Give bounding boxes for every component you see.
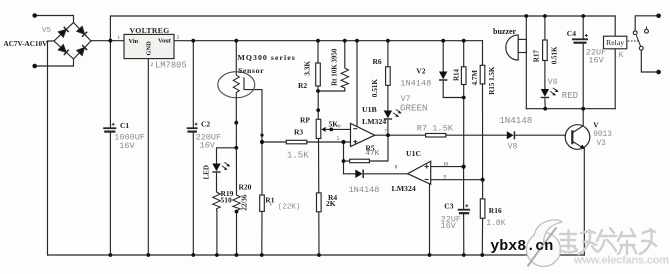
svg-text:LED: LED (203, 165, 211, 179)
svg-text:Vin: Vin (129, 38, 139, 45)
resistor R4 box (317, 193, 322, 212)
wire LED branch tee (217, 148, 237, 163)
potentiometer RP wiper arrow (321, 127, 325, 132)
svg-text:LM7805: LM7805 (155, 61, 187, 71)
svg-text:C4: C4 (567, 29, 576, 38)
op-amp U1B (351, 123, 375, 146)
svg-text:10: 10 (443, 162, 449, 167)
resistor R20 zigzag (233, 194, 240, 211)
wire bridge plus to VOLTREG Vin (91, 40, 124, 42)
svg-text:6: 6 (338, 124, 341, 129)
op-amp U1C minus sign (425, 179, 429, 181)
svg-text:Relay: Relay (606, 38, 624, 47)
diode V8 1N4148 (507, 131, 515, 139)
svg-text:1N4148: 1N4148 (499, 115, 532, 126)
transistor V3 emitter with arrow (573, 142, 585, 150)
wire C1 branch (109, 41, 111, 128)
wire feedback node down (343, 142, 345, 174)
op-amp U1B plus sign (353, 140, 357, 144)
resistor Rt zigzag (341, 66, 348, 89)
svg-text:R16: R16 (489, 206, 502, 215)
wire sensor bottom to R20 and ground (235, 98, 237, 194)
svg-text:R15 1.5K: R15 1.5K (488, 66, 496, 95)
svg-text:buzzer: buzzer (493, 27, 517, 36)
svg-text:R7 1.5K: R7 1.5K (417, 123, 454, 133)
svg-text:GND: GND (146, 41, 153, 56)
svg-text:3.3K: 3.3K (302, 61, 311, 76)
LED V6 red (541, 88, 559, 98)
svg-text:V5: V5 (42, 27, 52, 35)
relay armature lever (636, 35, 640, 46)
wire LED to R19 (216, 173, 218, 191)
node gnd R16 (480, 253, 484, 257)
node R3 input (260, 140, 264, 144)
op-amp U1C (408, 161, 431, 184)
svg-text:0.51K: 0.51K (371, 79, 379, 98)
node gnd C3 (462, 253, 466, 257)
node C4 rail (581, 14, 585, 18)
relay contact dashed link (628, 40, 639, 42)
wire R17 drop (544, 16, 546, 40)
node V2 top (441, 39, 445, 43)
svg-text:22/36: 22/36 (241, 194, 249, 210)
svg-text:* (22K): * (22K) (269, 204, 301, 212)
wire bridge minus to ground rail (48, 41, 55, 255)
node gnd U1C (428, 253, 432, 257)
wire R16 branch (482, 180, 484, 199)
resistor R7 box (426, 134, 446, 138)
relay contact NC circle (633, 31, 637, 35)
watermark elecfans glyphs (560, 228, 656, 254)
transistor V3 collector (573, 126, 583, 133)
svg-text:RP: RP (300, 115, 310, 124)
svg-text:Vout: Vout (158, 38, 172, 45)
diode bridge D3 bottom-left (58, 45, 68, 55)
svg-text:Sensor: Sensor (238, 66, 264, 75)
wire R4 to ground (318, 212, 320, 255)
wire R6 branch top (387, 41, 389, 67)
node wiper line (329, 127, 333, 131)
node LED tee (234, 146, 238, 150)
op-amp U1C plus sign (425, 165, 429, 169)
wire R1 branch (261, 142, 263, 195)
node R17 rail (543, 14, 547, 18)
wire U1C pin10 (431, 166, 464, 168)
node R5 left (342, 159, 346, 163)
wire VOLTREG GND to ground (147, 59, 149, 255)
svg-text:VOLTREG: VOLTREG (130, 26, 170, 35)
svg-text:C2: C2 (201, 120, 210, 129)
svg-text:R20: R20 (239, 183, 252, 192)
svg-text:R17: R17 (533, 50, 541, 63)
resistor R17 box (543, 40, 548, 61)
wire emitter to ground rail (583, 149, 585, 256)
wire relay coil drop (614, 16, 616, 36)
node gnd 7805 (146, 253, 150, 257)
wire diode V1 line to U1C output (344, 173, 356, 175)
svg-text:www.elecfans.com: www.elecfans.com (573, 255, 669, 267)
regulator U LM7805 box (124, 34, 174, 58)
relay contact NO stub (646, 26, 648, 29)
relay contact NO circle (645, 29, 649, 33)
wire top unregulated rail (110, 16, 615, 41)
wire node to RP top (317, 91, 319, 119)
wire U1C ground pin (429, 184, 431, 255)
svg-text:2K: 2K (326, 199, 336, 208)
svg-text:V8: V8 (508, 142, 518, 151)
node U1B plus (341, 140, 345, 144)
svg-text:5K: 5K (329, 119, 339, 128)
node gnd C2 (191, 253, 195, 257)
wire collector bus (526, 108, 615, 110)
sensor MQ300 ellipse (218, 72, 255, 98)
wire sensor top (235, 41, 237, 72)
node Vout C2 (191, 39, 195, 43)
node U1B output (386, 133, 390, 137)
LED V7 green (384, 109, 402, 119)
wire Rt bottom to node (318, 89, 345, 91)
node U1C pin10 (462, 165, 466, 169)
wire R2 bottom to node (317, 86, 319, 91)
wire 5V rail from Vout (174, 40, 483, 42)
wire R7 to diode V8 (446, 134, 507, 136)
wire relay common (641, 50, 658, 72)
svg-text:AC7V-AC10V: AC7V-AC10V (4, 40, 49, 48)
svg-text:R14: R14 (452, 68, 460, 81)
node U1B V+ (355, 39, 359, 43)
transistor V3 base bar (571, 130, 573, 144)
node gnd R1 (260, 253, 264, 257)
resistor R5 box (350, 159, 370, 163)
node R14 top (462, 39, 466, 43)
wire LED V7 to output node (387, 121, 389, 136)
resistor R19 zigzag (213, 190, 220, 210)
capacitor C3 (458, 204, 470, 213)
svg-text:4.7M: 4.7M (471, 70, 479, 86)
wire buzzer drop (525, 16, 527, 109)
svg-text:16V: 16V (588, 55, 604, 65)
wire sensor electrode down (244, 78, 262, 142)
node sensor bottom a (234, 121, 238, 125)
svg-text:R2: R2 (298, 81, 307, 90)
wire C3 branch (463, 167, 465, 209)
transistor V3 9013 circle (565, 125, 590, 150)
svg-text:16V: 16V (119, 141, 135, 151)
svg-text:C3: C3 (444, 201, 453, 210)
resistor R3 box (286, 140, 307, 144)
wire R6 to LED V7 (387, 85, 389, 110)
node RP top (316, 108, 320, 112)
wire collector (582, 109, 584, 126)
svg-text:R6: R6 (373, 57, 382, 66)
svg-text:ybx8.cn: ybx8.cn (490, 238, 553, 255)
svg-text:V6: V6 (548, 78, 558, 87)
buzzer stub (518, 39, 526, 52)
node buzzer rail (524, 14, 528, 18)
wire V2 branch (442, 41, 444, 71)
wire AC bottom input (35, 59, 74, 66)
terminal AC bottom (32, 64, 37, 69)
wire AC top input (35, 16, 74, 23)
svg-text:V3: V3 (597, 140, 607, 148)
watermark circle swoosh logo (527, 220, 563, 267)
wire R2 top (317, 41, 319, 63)
resistor R15 box (480, 65, 485, 84)
svg-text:9013: 9013 (593, 131, 612, 139)
buzzer symbol (506, 35, 518, 60)
svg-text:V2: V2 (416, 67, 425, 76)
wire C4 drop (582, 16, 584, 39)
wire R19 to ground (216, 211, 218, 255)
node V6 bus (543, 107, 547, 111)
svg-text:K: K (619, 51, 624, 60)
svg-text:LM324: LM324 (392, 184, 416, 193)
node R2 Rt junction (316, 89, 320, 93)
svg-text:2: 2 (151, 63, 154, 68)
diode bridge D2 top-right (77, 26, 87, 36)
node gnd C1 (109, 253, 113, 257)
svg-text:1N4148: 1N4148 (349, 185, 380, 195)
svg-text:1.8K: 1.8K (486, 219, 505, 228)
diode V2 1N4148 (439, 72, 447, 81)
wire Rt top (344, 41, 346, 66)
resistor R1 box (260, 195, 265, 211)
resistor R2 box (316, 63, 321, 86)
svg-text:510: 510 (221, 195, 233, 204)
node electrode a (260, 134, 263, 137)
node C1 top (109, 39, 113, 43)
wire R14 branch (463, 41, 465, 67)
diode bridge D1 top-left (58, 27, 68, 37)
wire U1B V+ from rail (356, 41, 358, 126)
terminal AC top (32, 13, 37, 18)
svg-text:47K: 47K (366, 150, 380, 158)
node gnd R20 (235, 253, 239, 257)
svg-text:U1B: U1B (362, 105, 377, 114)
op-amp U1B minus sign (353, 128, 357, 130)
wire R15 branch (482, 41, 484, 66)
LED V4 indicator (212, 162, 230, 172)
node sensor top (234, 39, 238, 43)
relay K coil box (604, 36, 627, 49)
relay common circle (639, 46, 643, 50)
wire RP wiper to U1B pin6 (325, 128, 351, 130)
bridge diamond V5 (54, 23, 91, 60)
svg-text:1.5K: 1.5K (287, 150, 309, 160)
svg-text:5: 5 (337, 137, 340, 142)
sensor heater zigzag (233, 72, 239, 98)
wire R5 right to output node (369, 135, 388, 161)
terminal relay top (656, 14, 661, 19)
svg-text:1N4148: 1N4148 (400, 78, 431, 88)
capacitor C1 (103, 123, 116, 132)
svg-text:0.51K: 0.51K (551, 46, 559, 64)
node gnd R19 (215, 253, 219, 257)
wire V8 to transistor base (515, 134, 571, 136)
node V2 R14 bottom (462, 96, 466, 100)
resistor R14 box (461, 67, 466, 85)
node gnd R4 (317, 253, 321, 257)
svg-text:16V: 16V (441, 221, 457, 231)
diode V1 1N4148 (355, 170, 363, 179)
svg-text:MQ300 series: MQ300 series (238, 53, 296, 62)
capacitor C4 (572, 34, 588, 43)
svg-text:16V: 16V (200, 141, 216, 151)
terminal relay bottom (656, 70, 661, 75)
wire R5 left (344, 160, 350, 162)
resistor R16 box (480, 199, 485, 218)
wire U1C pin9 (431, 179, 483, 181)
svg-text:R3: R3 (294, 127, 303, 136)
svg-text:RED: RED (562, 91, 578, 101)
node R20 bottom (235, 210, 239, 214)
node collector bus (581, 107, 585, 111)
diode bridge D4 bottom-right (77, 45, 87, 55)
svg-text:C1: C1 (120, 121, 129, 130)
svg-text:LM324: LM324 (362, 117, 386, 126)
wire U1B output line (375, 134, 426, 136)
wire ground rail (48, 254, 585, 256)
wire RP bottom to R4 (318, 139, 320, 193)
svg-text:8: 8 (395, 166, 398, 171)
capacitor C2 (187, 123, 198, 132)
node Rt top (343, 39, 347, 43)
node R6 top (386, 39, 390, 43)
wire R3 input line (262, 141, 286, 143)
wire LED V6 to bus (544, 99, 546, 109)
svg-text:U1C: U1C (406, 149, 422, 158)
svg-text:V: V (593, 121, 599, 130)
svg-text:Rt 10K 3950: Rt 10K 3950 (330, 48, 338, 86)
node U1C pin9 (481, 178, 485, 182)
node R2 top (316, 39, 320, 43)
svg-text:GREEN: GREEN (400, 103, 428, 114)
wire relay NC contact (635, 16, 658, 31)
resistor R6 box (386, 67, 391, 86)
wire C2 branch (192, 41, 194, 128)
potentiometer RP box (316, 119, 321, 138)
